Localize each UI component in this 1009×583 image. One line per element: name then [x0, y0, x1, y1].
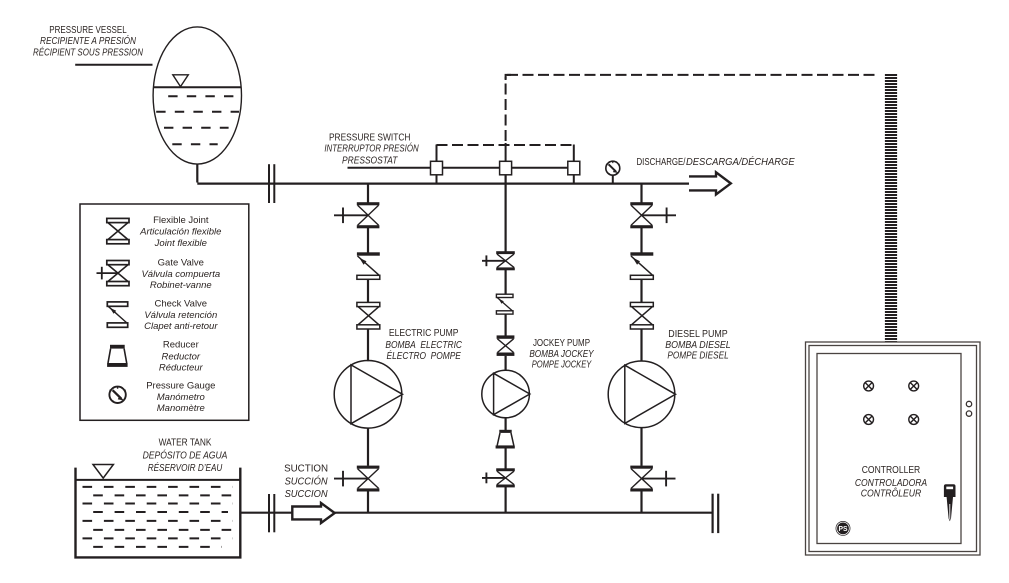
svg-text:Robinet-vanne: Robinet-vanne: [150, 280, 212, 291]
svg-text:BOMBA DIESEL: BOMBA DIESEL: [665, 340, 730, 351]
controller latch buttons: [966, 401, 971, 416]
pressure switch label: [324, 133, 419, 167]
water tank T2: [76, 465, 241, 558]
pressure switch PS3: [568, 161, 580, 175]
svg-text:CONTROLLER: CONTROLLER: [862, 465, 921, 476]
wire: leader to pressure switches: [348, 167, 433, 169]
svg-text:Reductor: Reductor: [162, 351, 201, 362]
gate valve V3 jockey top: [482, 251, 515, 270]
gate valve V5 diesel top: [630, 202, 676, 228]
legend gate valve symbol: [97, 261, 130, 286]
svg-text:POMPE DIESEL: POMPE DIESEL: [667, 350, 728, 361]
svg-text:POMPE JOCKEY: POMPE JOCKEY: [532, 360, 593, 371]
svg-text:Gate Valve: Gate Valve: [158, 258, 204, 269]
pump P3 diesel: [608, 361, 675, 428]
wire: dashed control riser: [505, 77, 507, 141]
check valve CV3 diesel: [630, 252, 653, 279]
flexible coupling FC1 on header: [269, 164, 274, 203]
controller cabinet: [806, 342, 981, 555]
legend pressure gauge symbol: [109, 387, 125, 403]
svg-text:RÉSERVOIR D’EAU: RÉSERVOIR D’EAU: [148, 461, 223, 474]
wire: dashed control line over switches: [437, 144, 574, 146]
wire: jockey branch riser: [505, 175, 507, 514]
water tank dashes: [83, 487, 233, 547]
svg-text:JOCKEY PUMP: JOCKEY PUMP: [533, 338, 590, 349]
electric pump label: [385, 328, 462, 362]
svg-text:BOMBA JOCKEY: BOMBA JOCKEY: [529, 349, 594, 360]
pressure vessel label: [33, 25, 144, 59]
svg-text:INTERRUPTOR PRESIÓN: INTERRUPTOR PRESIÓN: [324, 142, 419, 155]
flexible joint FJ1 electric: [357, 302, 380, 329]
wire: dashed control line to controller: [507, 74, 878, 76]
svg-text:Check Valve: Check Valve: [154, 299, 207, 310]
svg-text:RÉCIPIENT SOUS PRESSION: RÉCIPIENT SOUS PRESSION: [33, 45, 144, 58]
svg-text:PS: PS: [839, 524, 848, 533]
svg-text:PRESSURE VESSEL: PRESSURE VESSEL: [49, 25, 127, 36]
pressure switch PS1: [431, 161, 443, 175]
key switch: [944, 484, 956, 521]
pressure vessel T1: [153, 27, 241, 164]
legend reducer text: [159, 340, 204, 374]
reducer R1 jockey: [496, 430, 515, 449]
svg-text:CONTRÔLEUR: CONTRÔLEUR: [861, 487, 922, 500]
gate valve V1 electric top: [334, 202, 379, 228]
flexible joint FJ2 jockey: [497, 335, 515, 356]
check valve CV2 jockey: [496, 294, 513, 314]
svg-text:Joint flexible: Joint flexible: [154, 238, 207, 249]
node: control corner: [506, 75, 511, 80]
svg-text:SUCCIÓN: SUCCIÓN: [285, 474, 329, 487]
controller cable hatched: [885, 74, 897, 342]
indicator light L2: [909, 381, 919, 391]
svg-text:PRESSURE SWITCH: PRESSURE SWITCH: [329, 133, 411, 144]
legend box: [80, 204, 249, 420]
gate valve V4 jockey bottom: [482, 468, 515, 487]
wire: top discharge header pipe: [197, 183, 689, 185]
svg-text:Manomètre: Manomètre: [157, 403, 205, 414]
svg-text:DESCARGA/DÉCHARGE: DESCARGA/DÉCHARGE: [686, 155, 795, 168]
leader line to vessel: [75, 64, 152, 66]
gate valve V2 electric bottom: [334, 466, 379, 492]
pressure switch PS2: [500, 161, 512, 175]
check valve CV1 electric: [357, 252, 380, 279]
svg-text:BOMBA ELECTRIC: BOMBA ELECTRIC: [385, 340, 462, 351]
svg-text:PRESSOSTAT: PRESSOSTAT: [342, 156, 398, 167]
indicator light L4: [909, 415, 919, 425]
svg-text:Reducer: Reducer: [163, 340, 199, 351]
discharge arrow: [689, 172, 731, 194]
legend flexible joint symbol: [107, 218, 129, 243]
flexible coupling FC2 suction: [269, 494, 274, 532]
svg-text:Flexible Joint: Flexible Joint: [153, 215, 209, 226]
wire: switch stubs to pipe: [437, 172, 574, 184]
flexible joint FJ3 diesel: [630, 302, 653, 329]
wire: link between switches: [437, 167, 574, 169]
svg-text:DIESEL PUMP: DIESEL PUMP: [668, 329, 728, 340]
svg-text:ELECTRIC PUMP: ELECTRIC PUMP: [389, 328, 459, 339]
svg-text:Articulación flexible: Articulación flexible: [139, 227, 221, 238]
suction label: [284, 464, 328, 500]
wire: bottom suction manifold: [241, 512, 712, 514]
svg-text:Pressure Gauge: Pressure Gauge: [146, 380, 215, 391]
svg-text:DISCHARGE/: DISCHARGE/: [637, 157, 686, 168]
PS logo: [836, 521, 851, 536]
svg-text:CONTROLADORA: CONTROLADORA: [855, 478, 928, 489]
gate valve V6 diesel bottom: [630, 466, 675, 492]
svg-text:SUCCION: SUCCION: [285, 489, 329, 500]
svg-text:ÉLECTRO POMPE: ÉLECTRO POMPE: [387, 349, 462, 362]
wire: electric branch riser: [367, 184, 369, 514]
svg-text:Válvula retención: Válvula retención: [144, 310, 217, 321]
wire: solid risers to dashed control line: [437, 143, 574, 162]
controller label: [855, 465, 928, 499]
pump P1 electric: [334, 361, 402, 429]
pressure gauge G1: [606, 161, 620, 183]
svg-text:SUCTION: SUCTION: [284, 464, 328, 475]
jockey pump label: [529, 338, 594, 370]
legend check valve symbol: [107, 302, 127, 327]
svg-text:Clapet anti-retour: Clapet anti-retour: [144, 321, 218, 332]
indicator light L1: [864, 381, 874, 391]
legend check valve text: [144, 299, 218, 332]
wire: diesel branch riser: [640, 184, 642, 514]
svg-text:Válvula compuerta: Válvula compuerta: [141, 269, 220, 280]
svg-text:RECIPIENTE A PRESIÓN: RECIPIENTE A PRESIÓN: [40, 34, 137, 47]
svg-text:Manómetro: Manómetro: [157, 392, 205, 403]
suction arrow: [292, 503, 334, 523]
flexible coupling FC3 manifold end: [713, 494, 719, 533]
legend reducer symbol: [107, 345, 128, 367]
svg-text:WATER TANK: WATER TANK: [159, 438, 212, 449]
svg-text:DEPÓSITO DE AGUA: DEPÓSITO DE AGUA: [143, 448, 228, 461]
indicator light L3: [864, 415, 874, 425]
water tank label: [143, 438, 228, 474]
legend flexible joint text: [139, 215, 221, 249]
pump P2 jockey: [482, 370, 530, 418]
legend gate valve text: [141, 258, 220, 291]
legend pressure gauge text: [146, 380, 215, 414]
svg-text:Réducteur: Réducteur: [159, 363, 204, 374]
wire: vessel outlet drop: [196, 164, 198, 183]
diesel pump label: [665, 329, 730, 362]
